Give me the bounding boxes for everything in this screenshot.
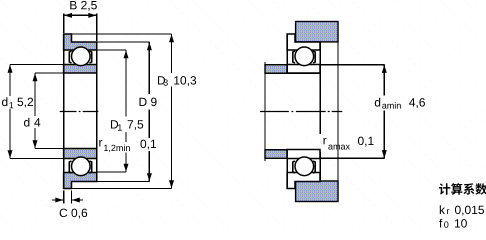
bearing inner ring top section (right fig) [287,65,320,74]
dimension D3: arrows [169,34,174,42]
dimension da: leader lines [320,65,384,159]
bearing outer ring bottom section (right fig) [287,173,320,189]
dimension D: arrows [147,42,152,50]
label D1 7,5 [111,120,118,128]
label C 0,6 [60,209,68,217]
table heading 计算系数 (as paths) [439,183,486,195]
factor f0 10 [439,219,442,228]
label ra max 0,1 [323,138,326,144]
shaft surface line top [265,72,320,74]
housing cut edge line [337,22,339,202]
ball bottom [72,157,91,176]
label d1 5,2 [2,97,7,106]
dimension D3: leader lines [72,34,172,189]
ball top [72,47,91,66]
bracket left of top ball (right fig) [293,51,295,63]
bearing left face line (right fig) [286,34,288,73]
dimension B: arrows [64,13,72,18]
factor kr 0,015 [440,205,445,214]
ball bottom (right fig) [295,157,314,176]
bearing left face line [63,34,65,189]
shaft shoulder block bottom [265,150,287,159]
dimension C: arrows [55,198,63,203]
dimension d: dim line [34,73,36,116]
dimension D: leader lines [97,42,150,182]
dimension C: extension lines [52,191,83,204]
label r 1,2min [99,140,102,146]
raceway edge bracket right of bottom ball [90,161,92,173]
raceway edge bracket right of top ball [90,51,92,63]
dimension d1: arrows [8,65,13,73]
dimension D3: dim line [171,34,173,73]
bearing right face line (right fig) [319,42,321,134]
dimension B: extension lines [64,13,97,41]
dimension D1: dim line [125,50,127,117]
inner ring bottom section [64,149,97,159]
label D 9 [139,98,146,106]
dimension B: dim line [64,14,97,16]
shaft shoulder block top [265,65,287,74]
inner ring top section [64,65,97,74]
housing block top [296,22,338,42]
bearing outer ring top section (right fig) [287,34,320,50]
dimension d: arrows [33,73,38,81]
centerline (right fig) [260,111,342,113]
dimension D1: leader lines [97,50,126,172]
dimension da: dim line [383,65,385,96]
label da min 4,6 [375,98,380,107]
label 0,1 (left figure) [140,140,156,150]
dimension d1: dim line [9,65,11,97]
dimension D1: arrows [124,50,129,58]
dimension D: dim line [148,42,150,94]
raceway edge bracket left of bottom ball [69,161,71,173]
outer ring top section (blue, with flange at left) [64,34,97,50]
bearing inner ring bottom section (right fig) [287,150,320,159]
shaft shoulder cut edge top [264,62,266,161]
outer ring bottom section (blue, flange at left) [64,173,97,189]
centerline [60,111,99,113]
dimension d1: leader lines [10,65,63,159]
dimension da: arrows [382,65,387,73]
label d 4 [24,118,29,127]
raceway edge bracket left of top ball [69,51,71,63]
dimension C: dim line pieces [52,199,64,201]
dimension d: leader lines [35,73,63,149]
shaft surface line bottom [265,149,320,151]
bracket right of top ball (right fig) [313,51,315,63]
label D3 10,3 [158,76,165,84]
bearing right face line [96,42,98,182]
ball top (right fig) [295,47,314,66]
label B 2,5 [70,1,97,11]
bracket left of bottom ball (right fig) [293,161,295,173]
bracket right of bottom ball (right fig) [313,161,315,173]
housing block bottom [296,181,338,202]
